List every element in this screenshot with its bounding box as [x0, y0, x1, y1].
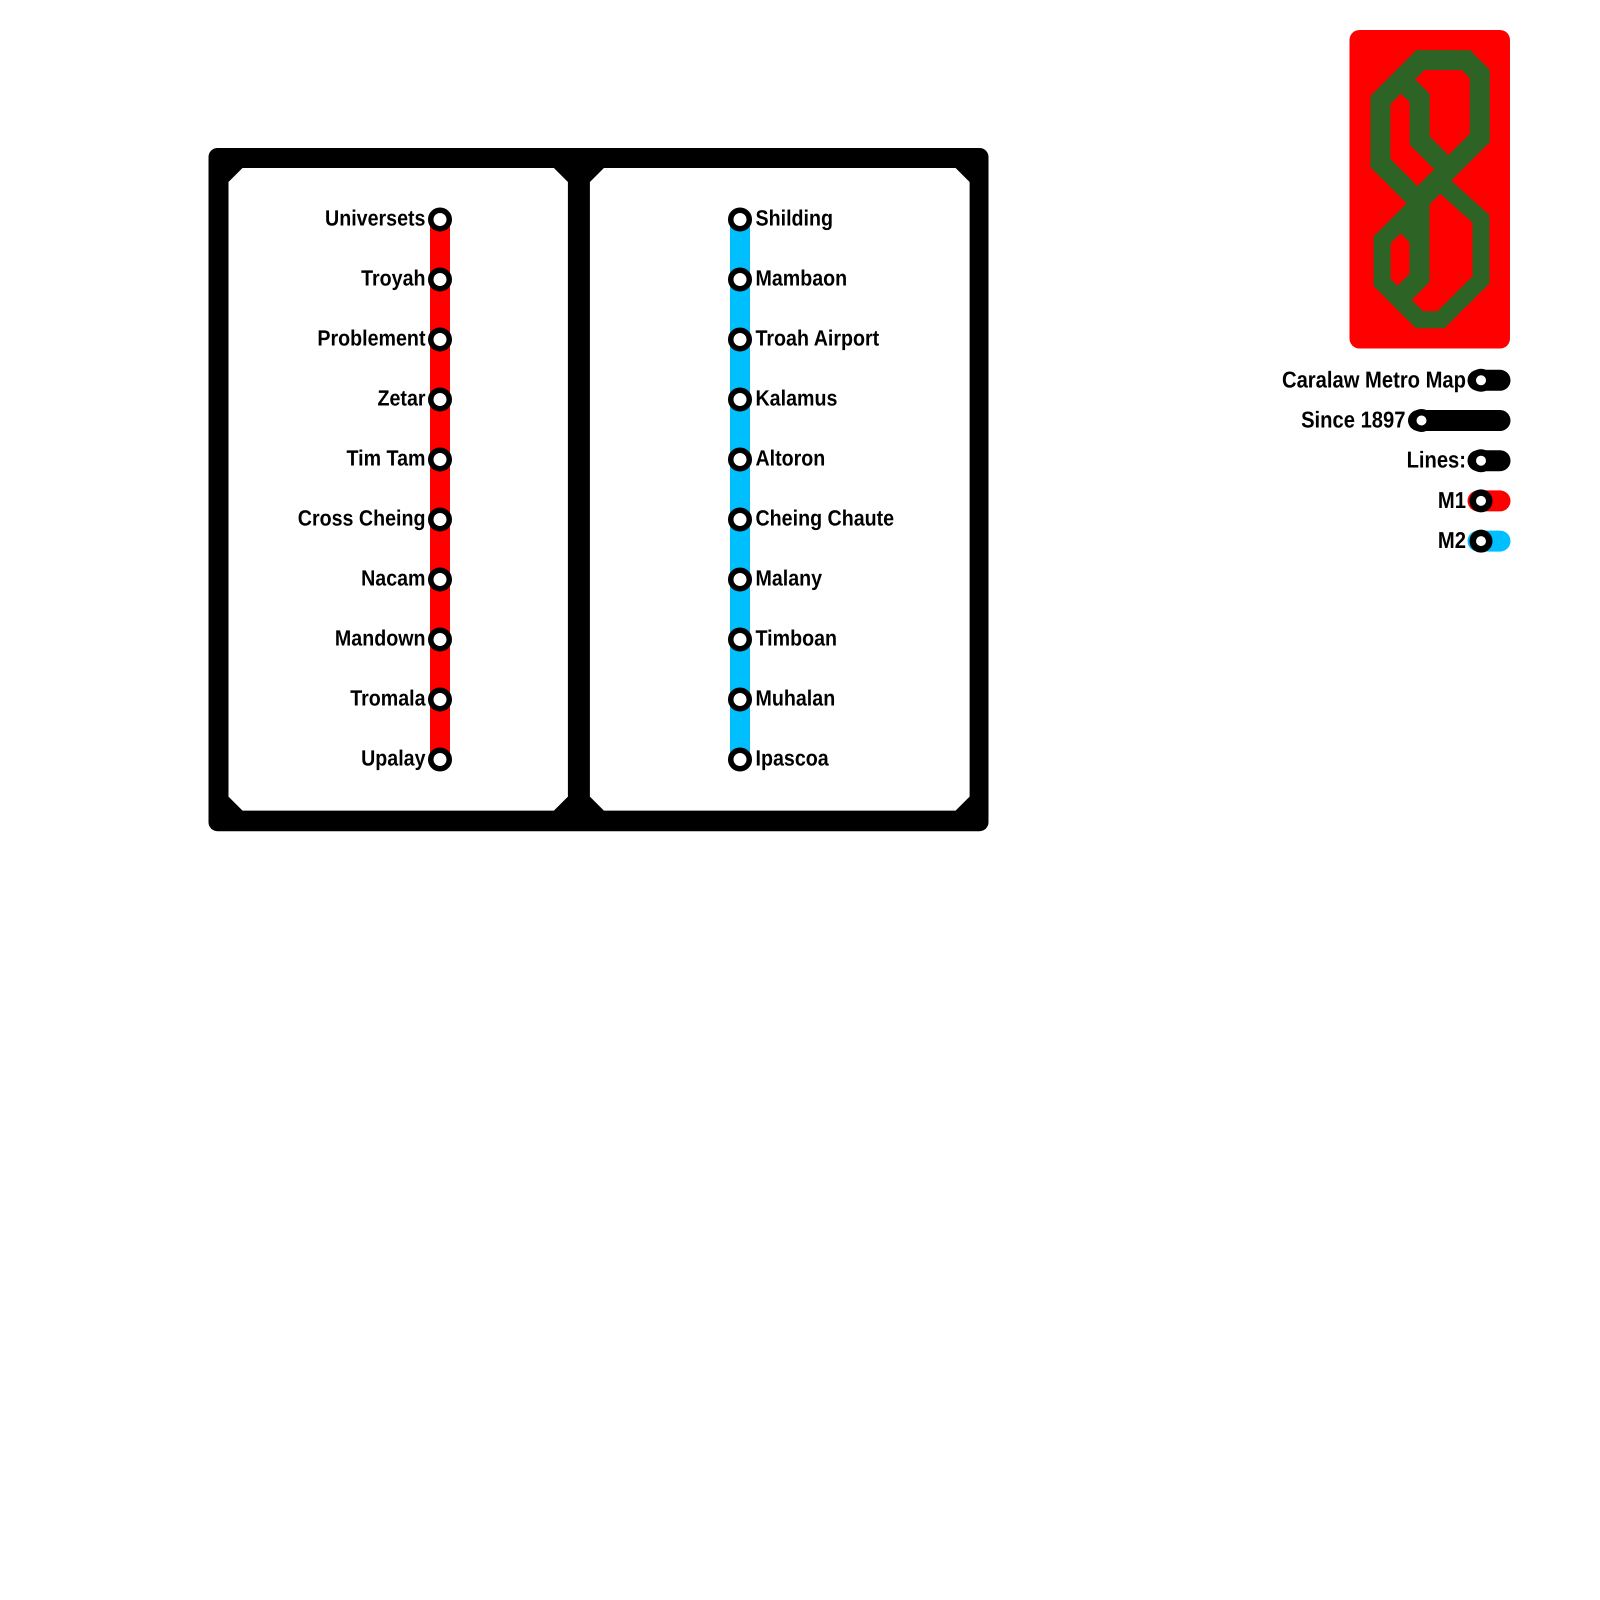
station Mandown	[431, 630, 450, 649]
logo chain link lower ring tail web	[1398, 201, 1430, 239]
station Nacam	[431, 570, 450, 589]
svg-text:Malany: Malany	[756, 566, 823, 591]
svg-text:Troah Airport: Troah Airport	[756, 326, 880, 351]
station Cheing Chaute	[731, 510, 750, 529]
station Ipascoa	[731, 750, 750, 769]
svg-text:Since 1897: Since 1897	[1301, 407, 1405, 433]
svg-text:M2: M2	[1438, 527, 1466, 553]
svg-text:M1: M1	[1438, 487, 1466, 513]
station Problement	[431, 330, 450, 349]
svg-text:Shilding: Shilding	[756, 206, 834, 231]
station Tromala	[431, 690, 450, 709]
svg-text:Mambaon: Mambaon	[756, 266, 848, 291]
station Troah Airport	[731, 330, 750, 349]
station Kalamus	[731, 390, 750, 409]
svg-text:Altoron: Altoron	[756, 446, 826, 471]
svg-text:Cheing Chaute: Cheing Chaute	[756, 506, 895, 531]
station Troyah	[431, 270, 450, 289]
legend since pill	[1408, 410, 1511, 431]
logo chain link upper ring	[1380, 60, 1479, 200]
svg-text:Timboan: Timboan	[756, 626, 838, 651]
svg-text:Caralaw Metro Map: Caralaw Metro Map	[1282, 366, 1466, 392]
svg-text:Universets: Universets	[325, 206, 426, 231]
svg-text:Mandown: Mandown	[335, 626, 426, 651]
metro line M1 (red)	[430, 220, 450, 760]
svg-text:Lines:: Lines:	[1407, 447, 1466, 473]
logo background	[1350, 30, 1511, 349]
logo chain link lower ring tail	[1397, 223, 1420, 301]
station Universets	[431, 210, 450, 229]
station Shilding	[731, 210, 750, 229]
station Zetar	[431, 390, 450, 409]
station Malany	[731, 570, 750, 589]
svg-text:Troyah: Troyah	[361, 266, 425, 291]
map frame	[209, 148, 989, 831]
legend M2 pill	[1468, 531, 1511, 552]
station Cross Cheing	[431, 510, 450, 529]
station Altoron	[731, 450, 750, 469]
legend lines pill	[1468, 450, 1511, 471]
svg-text:Problement: Problement	[317, 326, 426, 351]
svg-text:Muhalan: Muhalan	[756, 686, 836, 711]
svg-text:Kalamus: Kalamus	[756, 386, 838, 411]
svg-text:Tromala: Tromala	[350, 686, 426, 711]
right map panel	[590, 168, 970, 811]
station Mambaon	[731, 270, 750, 289]
legend title pill	[1468, 370, 1511, 391]
svg-text:Ipascoa: Ipascoa	[756, 746, 830, 771]
station Tim Tam	[431, 450, 450, 469]
svg-text:Upalay: Upalay	[361, 746, 426, 771]
svg-text:Cross Cheing: Cross Cheing	[298, 506, 426, 531]
logo chain link upper ring tail	[1397, 76, 1449, 170]
logo chain link lower ring	[1382, 182, 1481, 320]
station Muhalan	[731, 690, 750, 709]
left map panel	[229, 168, 568, 811]
svg-text:Tim Tam: Tim Tam	[347, 446, 426, 471]
legend M1 pill	[1468, 490, 1511, 511]
station Timboan	[731, 630, 750, 649]
svg-text:Zetar: Zetar	[378, 386, 426, 411]
station Upalay	[431, 750, 450, 769]
svg-text:Nacam: Nacam	[361, 566, 425, 591]
metro line M2 (cyan)	[730, 220, 750, 760]
